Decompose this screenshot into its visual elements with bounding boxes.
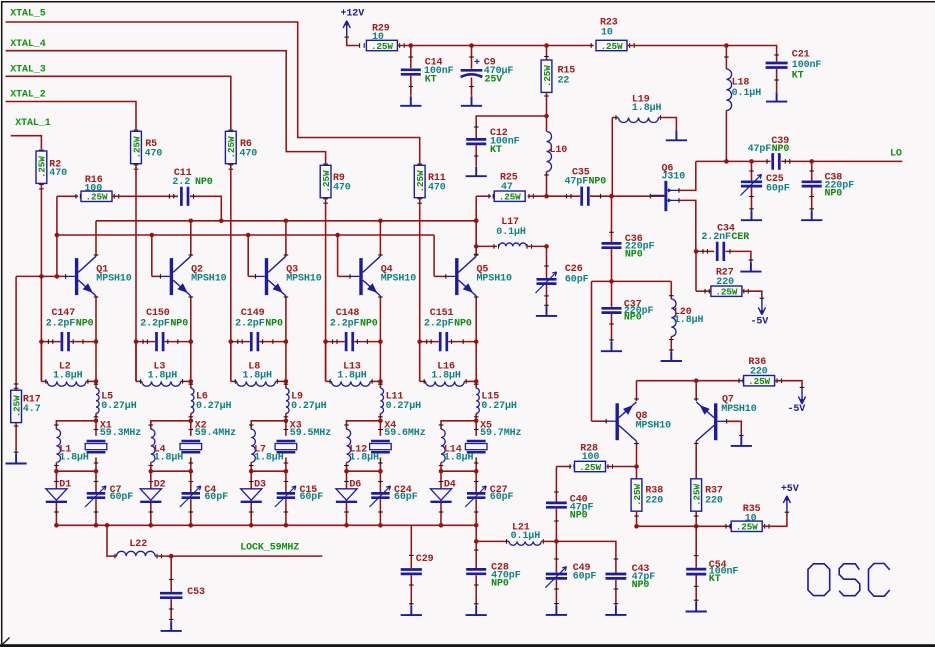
diode D4 (440, 471, 442, 489)
capacitor C25 60pF variable (751, 161, 753, 180)
junction emitter bus Q7 (694, 378, 699, 383)
wire Q6 source down (679, 200, 696, 251)
inductor L14 1.8uH (441, 429, 445, 462)
svg-text:0.27µH: 0.27µH (196, 401, 232, 412)
wire R35 to +5V (764, 524, 766, 529)
wire Q8 emitter up (636, 381, 638, 401)
inductor L3 1.8uH (135, 342, 137, 382)
junction crystal node (474, 419, 479, 424)
inductor L11 0.27uH (379, 342, 381, 389)
transistor Q4 MPSH10 (359, 258, 362, 295)
svg-text:1.8µH: 1.8µH (674, 315, 704, 326)
capacitor C4 60pF variable (190, 471, 192, 492)
junction rail collector (474, 219, 479, 224)
wire crystal node to L1 (56, 421, 96, 429)
wire R29 to R23 +12V rail (399, 43, 401, 48)
svg-text:47pF: 47pF (748, 144, 772, 155)
resistor R29 10 .25W (366, 40, 397, 50)
svg-text:220: 220 (750, 366, 768, 377)
svg-text:2.2pF: 2.2pF (424, 318, 454, 329)
svg-text:NP0: NP0 (265, 318, 283, 329)
crystal X5 59.7MHz (475, 421, 477, 436)
diode D2 (150, 471, 152, 489)
svg-text:1.8µH: 1.8µH (53, 370, 83, 381)
capacitor C27 60pF variable (475, 471, 477, 492)
svg-text:10: 10 (601, 27, 613, 38)
svg-text:1.8µH: 1.8µH (349, 452, 379, 463)
svg-text:J310: J310 (662, 171, 686, 182)
junction damper row right (94, 469, 99, 474)
resistor R15 22 .25W (546, 46, 548, 61)
capacitor C36 220pF NP0 (602, 243, 622, 247)
inductor L15 0.27uH (475, 342, 477, 389)
transistor Q2 MPSH10 (170, 258, 173, 295)
svg-text:MPSH10: MPSH10 (381, 274, 417, 285)
capacitor C54 100nF KT (686, 569, 706, 574)
capacitor C14 100nF KT (410, 46, 412, 69)
node stage3 base drop (246, 233, 251, 238)
svg-text:+5V: +5V (781, 484, 799, 495)
svg-text:.25W: .25W (748, 376, 770, 387)
ground C9 (461, 96, 482, 106)
junction rail bases left (55, 233, 60, 238)
svg-text:.25W: .25W (131, 136, 142, 158)
svg-text:C149: C149 (241, 308, 265, 319)
power -5V at R27 (758, 299, 765, 315)
wire base row stage1 left (15, 276, 17, 390)
svg-text:NP0: NP0 (491, 579, 509, 590)
junction L17 left (474, 244, 479, 249)
capacitor C40 47pF NP0 (555, 467, 557, 502)
wire collector Q2 (190, 221, 192, 256)
svg-text:.25W: .25W (321, 170, 332, 192)
junction damper row left (149, 469, 154, 474)
capacitor C35 47pF NP0 (582, 187, 589, 206)
capacitor C43 47pF NP0 (606, 574, 627, 578)
wire C34 right to ground (726, 251, 751, 262)
junction damper row left (249, 469, 254, 474)
svg-text:0.1µH: 0.1µH (732, 88, 762, 99)
wire rail bases (57, 234, 434, 236)
junction L21 row C28 (474, 539, 479, 544)
wire emitter Q2 column (190, 296, 192, 342)
junction bus cap (378, 523, 383, 528)
junction bus diode (249, 523, 254, 528)
wire R28 right (607, 464, 609, 469)
wire crystal node to L4 (151, 421, 191, 429)
wire R5 to stage2 (135, 164, 137, 382)
wire C35 to Q6 gate (590, 195, 665, 197)
wire Q7 collector down (695, 441, 697, 479)
junction LO C38 (809, 159, 814, 164)
svg-text:1.8µH: 1.8µH (431, 370, 461, 381)
junction cap row left (229, 339, 234, 344)
svg-text:.25W: .25W (11, 395, 22, 417)
svg-text:C148: C148 (336, 308, 360, 319)
svg-text:59.4MHz: 59.4MHz (195, 428, 236, 439)
svg-text:.25W: .25W (542, 65, 553, 87)
svg-text:2.2pF: 2.2pF (140, 318, 170, 329)
resistor R17 4.7 .25W (11, 390, 22, 422)
svg-text:60pF: 60pF (300, 492, 324, 503)
junction cap row left (39, 339, 44, 344)
svg-text:1.8µH: 1.8µH (59, 452, 89, 463)
junction C11 rail (219, 219, 224, 224)
junction cap row left (323, 339, 328, 344)
resistor R35 10 .25W (731, 521, 762, 531)
svg-text:470: 470 (240, 148, 258, 159)
capacitor C9 470uF 25V polarized (471, 46, 473, 69)
svg-text:.25W: .25W (692, 484, 703, 506)
svg-text:.25W: .25W (226, 136, 237, 158)
svg-text:MPSH10: MPSH10 (286, 274, 322, 285)
svg-text:0.1µH: 0.1µH (496, 227, 526, 238)
junction crystal node (284, 419, 289, 424)
wire LO row (696, 160, 771, 162)
wire R38 to bus (636, 511, 638, 526)
capacitor C149 2.2pF NP0 (231, 341, 250, 343)
svg-text:0.1µH: 0.1µH (511, 531, 541, 542)
wire R37 to bus (695, 511, 697, 526)
inductor L1 1.8uH (56, 429, 60, 462)
svg-text:NP0: NP0 (589, 177, 607, 188)
svg-text:L10: L10 (550, 145, 568, 156)
junction damper row right (284, 469, 289, 474)
capacitor C21 100nF KT (774, 54, 779, 56)
junction bus diode (344, 523, 349, 528)
svg-text:XTAL_5: XTAL_5 (10, 9, 46, 20)
wire crystal node to L14 (441, 421, 476, 429)
junction R15 C12 L10 (544, 114, 549, 119)
junction cap row right (94, 339, 99, 344)
svg-text:100: 100 (582, 452, 600, 463)
svg-text:NP0: NP0 (170, 318, 188, 329)
resistor R36 220 .25W (743, 380, 745, 382)
svg-text:XTAL_2: XTAL_2 (10, 89, 46, 100)
wire L20 to ground (670, 337, 672, 352)
junction LOCK L22 C53 (169, 554, 174, 559)
svg-text:470: 470 (145, 148, 163, 159)
wire L20 top stub (670, 281, 672, 299)
power -5V at R36 (798, 388, 805, 404)
junction base row rail (55, 274, 60, 279)
junction L row (378, 379, 383, 384)
svg-text:.25W: .25W (499, 192, 521, 203)
capacitor C39 47pF NP0 (773, 153, 780, 170)
svg-text:220: 220 (716, 277, 734, 288)
svg-text:NP0: NP0 (624, 312, 642, 323)
svg-text:0.27µH: 0.27µH (291, 401, 327, 412)
junction rail collector (189, 219, 194, 224)
junction cap row right (378, 339, 383, 344)
wire emitter Q3 column (285, 296, 287, 342)
capacitor C26 60pF variable (537, 279, 557, 283)
crystal X3 59.5MHz (285, 421, 287, 436)
wire Q6 source to R27 (695, 251, 697, 291)
svg-text:D1: D1 (59, 479, 71, 490)
capacitor C150 2.2pF NP0 (136, 341, 155, 343)
junction bus R37 C54 (694, 524, 699, 529)
svg-text:MPSH10: MPSH10 (191, 274, 227, 285)
ground C54 (686, 602, 707, 612)
ground C49 (546, 605, 567, 615)
wire R16 column (56, 196, 58, 276)
svg-text:2.2: 2.2 (172, 177, 190, 188)
svg-text:NP0: NP0 (360, 318, 378, 329)
ground R17 (6, 454, 27, 464)
svg-text:59.3MHz: 59.3MHz (100, 428, 141, 439)
svg-text:10: 10 (372, 32, 384, 43)
resistor R23 10 .25W (596, 40, 627, 50)
svg-text:L22: L22 (129, 539, 147, 550)
inductor L21 0.1uH (476, 540, 509, 542)
resistor R9 470 .25W (323, 163, 328, 165)
svg-text:1.8µH: 1.8µH (154, 452, 184, 463)
inductor L18 0.1uH (725, 46, 727, 70)
wire damper row (56, 470, 96, 472)
junction L row (474, 379, 479, 384)
wire R17 to ground (15, 423, 17, 454)
svg-text:C151: C151 (430, 308, 454, 319)
wire L18 to LO row (725, 111, 727, 162)
junction +12V C9 (469, 43, 474, 48)
junction LO C25 (749, 159, 754, 164)
junction base row R2 (39, 274, 44, 279)
junction cap row left (417, 339, 422, 344)
resistor R28 100 .25W (575, 461, 606, 471)
transistor Q5 MPSH10 (455, 258, 458, 295)
junction damper row right (189, 469, 194, 474)
svg-text:XTAL_3: XTAL_3 (10, 65, 46, 76)
capacitor C28 470pF NP0 (466, 569, 486, 573)
transistor Q7 MPSH10 (714, 403, 717, 440)
svg-text:100: 100 (84, 183, 102, 194)
svg-text:D6: D6 (349, 479, 361, 490)
wire net XTAL_1 (11, 136, 42, 149)
wire R25 branch (476, 195, 491, 197)
svg-text:470: 470 (428, 182, 446, 193)
svg-text:220: 220 (645, 496, 663, 507)
junction LO L18 (724, 159, 729, 164)
wire to C35 (547, 195, 581, 197)
svg-text:CER: CER (731, 232, 749, 243)
junction +12V C14 (409, 43, 414, 48)
svg-text:-5V: -5V (751, 317, 769, 328)
transistor Q3 MPSH10 (265, 258, 268, 295)
svg-text:NP0: NP0 (76, 318, 94, 329)
inductor L13 1.8uH (325, 342, 327, 382)
inductor L17 0.1uH (499, 243, 527, 246)
wire net XTAL_2 (6, 102, 136, 130)
junction cap row right (284, 339, 289, 344)
wire R23 to C21 (629, 43, 631, 48)
wire damper row (347, 470, 381, 472)
inductor L7 1.8uH (251, 429, 255, 462)
ground C37 (601, 342, 622, 352)
junction L17 right C26 (544, 244, 549, 249)
wire net XTAL_4 (6, 51, 326, 164)
svg-text:D3: D3 (254, 479, 266, 490)
diode D1 (55, 471, 57, 489)
diode D6 (346, 471, 348, 489)
svg-text:25V: 25V (485, 74, 503, 85)
svg-text:C147: C147 (52, 308, 76, 319)
capacitor C37 220pF NP0 (602, 308, 622, 312)
svg-text:100nF: 100nF (792, 60, 822, 71)
inductor L2 1.8uH (40, 342, 42, 382)
transistor Q8 MPSH10 (616, 403, 619, 440)
wire L19 right to ground (659, 118, 677, 132)
wire Q7 emitter up (695, 381, 697, 401)
svg-text:0.27µH: 0.27µH (386, 401, 422, 412)
wire base row Q5 (434, 275, 446, 277)
svg-text:NP0: NP0 (454, 318, 472, 329)
svg-text:59.5MHz: 59.5MHz (290, 428, 331, 439)
junction damper row left (344, 469, 349, 474)
resistor R11 470 .25W (417, 163, 422, 165)
capacitor C53 (170, 556, 172, 592)
junction bus cap (189, 523, 194, 528)
junction rail collector (378, 219, 383, 224)
capacitor C148 2.2pF NP0 (326, 341, 345, 343)
wire Q6 drain to LO (679, 161, 696, 190)
wire collector Q1 (95, 221, 97, 256)
svg-text:MPSH10: MPSH10 (477, 274, 513, 285)
capacitor C12 100nF KT (466, 139, 486, 144)
resistor R2 470 .25W (39, 149, 44, 151)
wire Q7 base to ground (717, 420, 726, 422)
junction Q6 source C34 (694, 249, 699, 254)
wire C34 row (696, 250, 714, 252)
svg-text:4.7: 4.7 (23, 404, 41, 415)
svg-text:.25W: .25W (579, 462, 601, 473)
wire collector Q3 (285, 221, 287, 256)
svg-text:-5V: -5V (788, 404, 806, 415)
junction bus cap (474, 523, 479, 528)
svg-text:60pF: 60pF (394, 492, 418, 503)
svg-text:47: 47 (501, 182, 513, 193)
svg-text:2.2pF: 2.2pF (235, 318, 265, 329)
capacitor C49 60pF variable (555, 541, 557, 572)
wire C37 to ground (611, 314, 613, 342)
wire C11 to rail (190, 196, 221, 221)
wire emitter Q1 column (95, 296, 97, 342)
wire net XTAL_3 (6, 76, 231, 129)
wire Q8 base column (591, 281, 593, 421)
wire collector Q5 (475, 221, 477, 256)
junction bus diode (149, 523, 154, 528)
svg-text:LO: LO (890, 149, 902, 160)
wire gate node to C36 (611, 196, 613, 242)
junction bus cap (94, 523, 99, 528)
ground L20 (661, 352, 682, 362)
svg-text:MPSH10: MPSH10 (636, 420, 672, 431)
junction bus cap (284, 523, 289, 528)
junction L row (189, 379, 194, 384)
wire rail collectors (96, 220, 476, 222)
wire L17 row left stub (476, 245, 497, 247)
svg-text:MPSH10: MPSH10 (96, 274, 132, 285)
ground C14 (400, 96, 421, 106)
wire R28 left (556, 466, 571, 468)
crystal X2 59.4MHz (190, 421, 192, 436)
junction gate row L10 (544, 194, 549, 199)
svg-text:C29: C29 (416, 554, 434, 565)
svg-text:KT: KT (709, 574, 721, 585)
svg-text:220: 220 (705, 496, 723, 507)
wire emitter Q4 column (379, 296, 381, 342)
wire +12V to R29 (347, 37, 359, 45)
resistor R5 470 .25W (134, 129, 139, 131)
node stage4 base drop (335, 233, 340, 238)
svg-text:1.8µH: 1.8µH (254, 452, 284, 463)
capacitor C15 60pF variable (285, 471, 287, 492)
svg-text:.25W: .25W (632, 484, 643, 506)
svg-text:D2: D2 (154, 479, 166, 490)
ground L19 (666, 131, 687, 141)
wire base row Q3 (248, 275, 255, 277)
ground C29 (401, 606, 422, 616)
svg-text:NP0: NP0 (570, 511, 588, 522)
ground C34 (740, 262, 761, 272)
svg-text:60pF: 60pF (573, 571, 597, 582)
wire R16 to C11 (113, 194, 115, 199)
junction L21 C40 C49 (554, 539, 559, 544)
resistor R25 47 .25W (494, 191, 525, 201)
wire C36 to row (611, 249, 613, 281)
svg-text:.25W: .25W (415, 170, 426, 192)
ground C26 (536, 306, 557, 316)
inductor L10 (547, 132, 552, 172)
inductor L22 (107, 525, 117, 556)
wire L19 left column to gate row (611, 118, 613, 197)
svg-text:NP0: NP0 (195, 177, 213, 188)
wire R11 to stage5 (419, 198, 421, 382)
wire base row Q4 (338, 275, 350, 277)
svg-text:C150: C150 (146, 308, 170, 319)
resistor R6 470 .25W (229, 129, 234, 131)
power +5V (783, 496, 790, 512)
svg-text:NP0: NP0 (632, 580, 650, 591)
junction damper row left (439, 469, 444, 474)
inductor L8 1.8uH (230, 342, 232, 382)
wire row to C37 (611, 281, 613, 307)
junction crystal node (94, 419, 99, 424)
svg-text:60pF: 60pF (110, 492, 134, 503)
wire damper row (251, 470, 286, 472)
svg-text:59.6MHz: 59.6MHz (384, 428, 425, 439)
crystal X4 59.6MHz (379, 421, 381, 436)
node stage5 base drop (433, 235, 435, 276)
svg-text:.25W: .25W (715, 287, 737, 298)
capacitor C24 60pF variable (379, 471, 381, 492)
inductor L12 1.8uH (347, 429, 351, 462)
svg-text:470: 470 (49, 168, 67, 179)
wire L17 row right stub (526, 244, 528, 249)
crystal X1 59.3MHz (95, 421, 97, 436)
wire C28 column from bus (475, 525, 477, 568)
resistor R16 100 .25W (57, 195, 78, 197)
svg-text:D4: D4 (444, 479, 456, 490)
resistor R27 220 .25W (711, 286, 742, 296)
wire base row Q2 (152, 275, 161, 277)
wire bottom bus right (637, 525, 732, 527)
capacitor C11 2.2 NP0 (181, 187, 188, 206)
title text OSC (808, 564, 890, 597)
ground C43 (605, 605, 626, 615)
junction bus R38 (634, 524, 639, 529)
ground C38 (801, 211, 822, 221)
